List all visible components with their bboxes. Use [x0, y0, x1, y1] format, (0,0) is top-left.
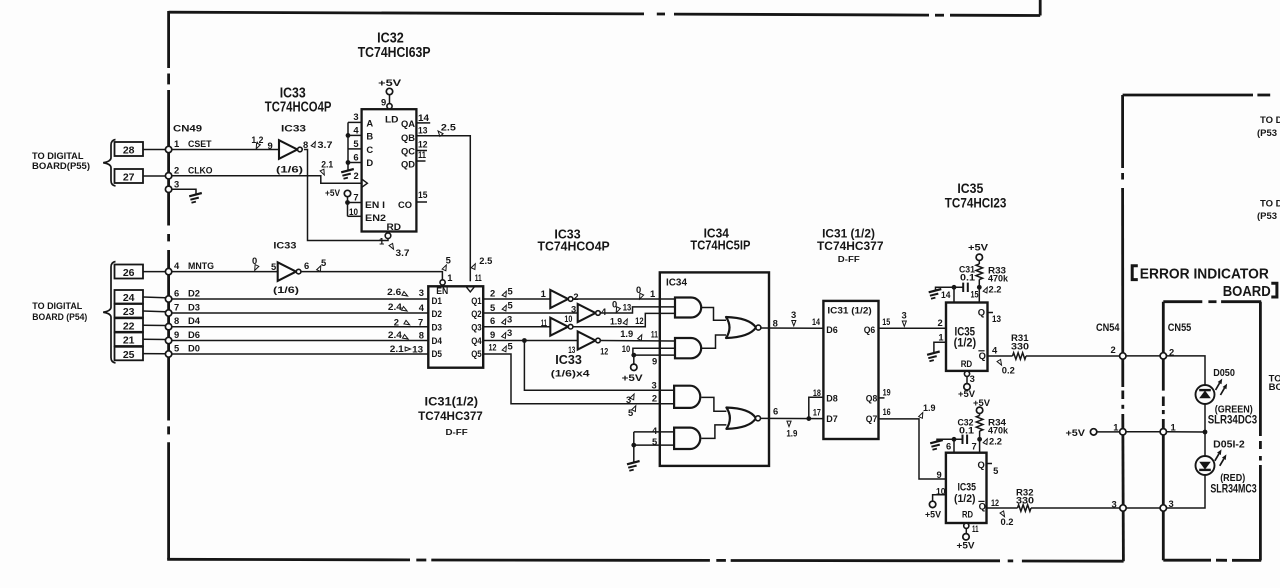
inverter IC33 11-10 — [550, 318, 568, 336]
error indicator board border top edge — [1163, 300, 1202, 303]
svg-text:LD: LD — [385, 114, 399, 125]
svg-text:470k: 470k — [988, 273, 1009, 284]
connector pin 8 D4 — [165, 324, 171, 330]
label ERROR INDICATOR BOARD — [1132, 266, 1138, 280]
svg-text:(1/6): (1/6) — [276, 165, 303, 176]
stub EN1 pin7 — [348, 202, 362, 204]
junction dot pin15 — [977, 285, 982, 290]
svg-text:D4: D4 — [188, 315, 201, 326]
svg-text:3.7: 3.7 — [318, 139, 333, 150]
svg-text:5: 5 — [508, 286, 513, 297]
svg-text:13: 13 — [412, 344, 423, 355]
svg-text:Q4: Q4 — [471, 335, 482, 346]
svg-text:9: 9 — [937, 469, 942, 480]
svg-text:B: B — [366, 131, 373, 142]
svg-text:26: 26 — [123, 267, 135, 279]
svg-text:IC35: IC35 — [958, 482, 977, 494]
wire R32 to CN54 pin3 — [1031, 507, 1120, 509]
NOR1 bubble — [756, 325, 761, 330]
svg-text:3: 3 — [652, 380, 657, 391]
wire box24 to pin6 — [143, 296, 165, 299]
junction dot between LEDs — [1203, 430, 1208, 435]
wire pin11 to +5V — [965, 528, 967, 533]
svg-text:Q: Q — [979, 350, 986, 361]
svg-text:4: 4 — [992, 345, 998, 356]
LED D050 green — [1196, 385, 1215, 404]
ground at IC35-1 pin14 — [929, 289, 942, 299]
svg-text:3: 3 — [353, 111, 358, 122]
wire D2 to IC31 D1 pin3 — [172, 298, 429, 300]
wire R31 to CN54 pin2 — [1026, 355, 1120, 357]
wire pin10 jog — [633, 348, 675, 355]
svg-text:1: 1 — [1113, 422, 1118, 433]
connector box 23 — [115, 304, 144, 318]
svg-text:5: 5 — [174, 343, 179, 354]
svg-text:TC74HC5IP: TC74HC5IP — [690, 238, 750, 253]
connector pin 3 — [165, 186, 171, 192]
svg-text:SLR34MC3: SLR34MC3 — [1210, 484, 1256, 496]
svg-text:2.5: 2.5 — [479, 255, 492, 266]
svg-text:1: 1 — [379, 236, 384, 247]
AND gate 2 of IC34 — [675, 338, 701, 358]
svg-text:TC74HC377: TC74HC377 — [418, 409, 483, 423]
svg-text:8: 8 — [773, 317, 778, 328]
svg-text:11: 11 — [541, 317, 547, 328]
wire QB pin13 to IC31 clock pin11 — [416, 136, 470, 282]
wire pin6 — [953, 439, 955, 452]
connector pin 4 MNTG — [165, 268, 171, 274]
svg-text:0.1: 0.1 — [959, 425, 974, 436]
svg-text:EN I: EN I — [365, 199, 385, 210]
wire inv11-10 out to IC34 pin12 — [573, 313, 675, 326]
main board border top-right horizontal at y=95 — [1123, 94, 1253, 97]
svg-text:EN2: EN2 — [365, 212, 386, 223]
svg-text:2.4: 2.4 — [388, 301, 403, 312]
wire D0 to IC31 D5 pin13 — [172, 353, 429, 355]
NOR gate 1 of IC34 — [726, 317, 756, 338]
svg-text:Q2: Q2 — [471, 308, 482, 319]
+5V terminal at pin10 — [929, 501, 935, 507]
wire AND1 out to NOR1 — [702, 308, 727, 321]
svg-text:10: 10 — [564, 313, 572, 324]
svg-text:17: 17 — [813, 406, 821, 417]
svg-text:D2: D2 — [432, 308, 443, 319]
wire junction to LED D051-2 — [1204, 432, 1206, 456]
svg-text:12: 12 — [418, 138, 428, 149]
connector box 25 — [115, 347, 144, 361]
svg-text:10: 10 — [349, 206, 358, 217]
wire CN55 pin1 to LED junction — [1167, 431, 1206, 433]
RD pin1 bubble — [385, 233, 391, 239]
svg-text:QD: QD — [401, 158, 415, 169]
EN bubble pin1 on IC31 top — [440, 280, 445, 285]
svg-text:13: 13 — [418, 124, 427, 135]
svg-text:Q: Q — [978, 459, 985, 470]
junction dot C31 left — [952, 285, 957, 290]
wire CN54 pin2 to CN55 pin2 — [1126, 355, 1160, 357]
stub Q8 pin19 — [879, 397, 885, 399]
CN55 pin 1 — [1160, 429, 1166, 435]
svg-text:D2: D2 — [188, 288, 200, 299]
svg-text:+5V: +5V — [968, 242, 989, 253]
ground at IC35-1 pin1 — [927, 352, 940, 362]
wire Q6 pin15 to IC35 pin2 — [879, 327, 947, 329]
svg-text:0.2: 0.2 — [1002, 365, 1015, 376]
annotation 2.5 at IC31 clock — [471, 263, 477, 270]
svg-text:D7: D7 — [826, 413, 838, 424]
svg-text:7: 7 — [353, 192, 358, 203]
stub Q pin13 — [988, 312, 994, 314]
annotation 5 on Q1 — [502, 290, 508, 297]
svg-text:(RED): (RED) — [1220, 473, 1245, 484]
svg-text:1.9: 1.9 — [786, 428, 797, 439]
svg-text:3.7: 3.7 — [396, 247, 410, 258]
main board border top edge (dash-dot) — [169, 12, 644, 14]
annotation 2.2 at pin15 — [983, 286, 989, 293]
AND gate 4 of IC34 — [674, 428, 700, 449]
wire C31 left to ground — [936, 287, 964, 290]
svg-text:0.2: 0.2 — [1001, 516, 1014, 527]
svg-text:9: 9 — [268, 140, 273, 151]
RD pin11 bubble — [964, 523, 969, 528]
IC35(1/2) one-shot box second — [946, 453, 987, 523]
wire C32 left to ground — [937, 439, 963, 441]
svg-text:11: 11 — [972, 523, 979, 534]
connector box 21 — [115, 333, 144, 347]
svg-text:C: C — [366, 144, 373, 155]
svg-text:4: 4 — [174, 260, 180, 271]
wire +5V up to pin9/pin10 — [633, 355, 635, 364]
ground for IC34 pins 4 5 — [627, 461, 640, 471]
svg-text:1: 1 — [1171, 422, 1176, 433]
svg-text:7: 7 — [972, 441, 977, 452]
svg-text:2.4: 2.4 — [388, 329, 403, 340]
main board border top-right jog up — [1039, 0, 1042, 16]
svg-text:10: 10 — [622, 343, 631, 354]
svg-text:1.9: 1.9 — [610, 315, 622, 326]
junction dot at D — [346, 160, 351, 165]
CN54 pin 2 — [1120, 353, 1126, 359]
junction dot pin9/10 — [631, 353, 636, 358]
svg-text:ERROR INDICATOR: ERROR INDICATOR — [1140, 267, 1269, 283]
svg-text:2: 2 — [1111, 344, 1116, 355]
svg-text:6: 6 — [353, 152, 358, 163]
svg-text:3: 3 — [970, 373, 975, 384]
svg-text:5: 5 — [993, 465, 998, 476]
CN55 pin 2 — [1160, 353, 1166, 359]
svg-text:Q3: Q3 — [471, 322, 482, 333]
annotation 3.7 at CSET inverter output — [311, 141, 317, 148]
svg-text:4: 4 — [419, 302, 425, 313]
main board border left edge (dash-dot) — [167, 11, 170, 68]
svg-text:IC31 (1/2): IC31 (1/2) — [827, 305, 871, 315]
connector pin 7 D3 — [165, 310, 171, 316]
RD pin3 bubble — [964, 371, 969, 376]
svg-text:3: 3 — [419, 287, 424, 298]
wire CSET to inverter IC33a — [172, 149, 279, 151]
svg-text:15: 15 — [971, 289, 979, 300]
svg-text:2: 2 — [573, 291, 578, 302]
svg-text:IC31(1/2): IC31(1/2) — [425, 394, 479, 408]
connector pin 2 CLKO — [165, 173, 171, 179]
svg-text:470k: 470k — [988, 425, 1009, 436]
inverter IC33a (CSET) — [279, 140, 297, 159]
svg-text:+5V: +5V — [622, 372, 644, 383]
annotation 3 on Q4 — [502, 332, 508, 339]
wire CN55 pin2 to LED D050 — [1167, 356, 1206, 385]
annotation 3.7 near RD pin — [389, 243, 395, 250]
wire box26 to pin4 — [143, 271, 165, 273]
wire NOR1 output pin8 to IC31 D6 pin14 — [761, 327, 824, 329]
wire Q4 to inverter 13-12 — [483, 340, 578, 342]
annotation 5 on Q2 — [502, 304, 508, 311]
brace for P54 group — [103, 262, 115, 364]
svg-text:D050: D050 — [1213, 368, 1235, 379]
inverter IC33 13-12 — [578, 332, 596, 350]
svg-text:5: 5 — [271, 261, 276, 272]
svg-text:D1: D1 — [432, 295, 443, 306]
stub EN2 pin10 — [348, 215, 362, 217]
brace for P55 group — [103, 140, 115, 187]
wire D6 to IC31 D4 pin8 — [172, 340, 429, 342]
annotation 5 on Q5 — [502, 345, 508, 352]
svg-text:IC33: IC33 — [281, 124, 306, 135]
CN55 pin 3 — [1160, 505, 1166, 511]
stub QC pin12 — [416, 150, 427, 152]
wire MNTG-inv to IC31 EN pin1 — [301, 272, 442, 280]
svg-text:9: 9 — [174, 329, 179, 340]
svg-text:9: 9 — [652, 356, 657, 367]
IC32 counter box TC74HC163P — [362, 109, 417, 231]
ground at CN49 pin3 — [189, 193, 202, 203]
svg-text:3: 3 — [1112, 499, 1117, 510]
svg-text:330: 330 — [1011, 341, 1029, 352]
+5V terminal at pin11 — [963, 534, 969, 540]
wire NOR2 output pin6 to IC31 D7 pin17 — [761, 417, 824, 419]
wire LED D050 to junction — [1204, 404, 1206, 432]
svg-text:Q8: Q8 — [866, 392, 878, 403]
annotation 1.9 on pin6 wire — [787, 421, 791, 426]
wire AND3 out to NOR2 — [701, 397, 726, 411]
error indicator board border right edge — [1259, 302, 1262, 436]
inverter IC33b (MNTG) — [278, 262, 296, 281]
svg-text:+5V: +5V — [973, 397, 991, 408]
svg-text:5: 5 — [508, 341, 513, 352]
junction dot D7/D8 tie — [806, 416, 811, 421]
svg-text:Q: Q — [979, 501, 986, 512]
wire pin7 — [979, 439, 981, 452]
svg-text:D6: D6 — [188, 329, 200, 340]
NOR gate 2 of IC34 — [726, 408, 756, 429]
ground at IC35-2 pin6 — [930, 440, 943, 450]
svg-text:4: 4 — [601, 306, 607, 317]
svg-text:18: 18 — [813, 387, 821, 398]
wire Q2 to inverter 3-4 — [483, 312, 578, 314]
svg-text:7: 7 — [174, 302, 179, 313]
connector box 27 — [115, 169, 144, 183]
svg-text:4: 4 — [652, 425, 658, 436]
svg-text:(1/6)x4: (1/6)x4 — [551, 369, 591, 380]
svg-text:D3: D3 — [188, 302, 200, 313]
svg-text:D-FF: D-FF — [446, 428, 468, 437]
svg-text:2: 2 — [938, 317, 943, 328]
wire pin1 to ground — [934, 342, 946, 352]
svg-text:TC74HCO4P: TC74HCO4P — [538, 239, 611, 254]
wire box22 to pin8 — [143, 324, 165, 326]
svg-text:12: 12 — [489, 341, 497, 352]
svg-text:IC33: IC33 — [273, 241, 296, 252]
svg-text:3: 3 — [791, 309, 796, 320]
svg-text:28: 28 — [123, 145, 135, 157]
connector pin 9 D6 — [165, 337, 171, 343]
connector box 28 — [115, 142, 144, 156]
svg-text:19: 19 — [883, 387, 891, 398]
stub D pin6 — [348, 162, 362, 164]
svg-text:13: 13 — [568, 344, 575, 355]
wire CLKO to IC32 clock pin2 — [172, 176, 362, 183]
resistor R34 470k — [979, 414, 981, 416]
svg-text:QA: QA — [401, 118, 415, 129]
svg-text:1.9: 1.9 — [923, 402, 936, 413]
wire Q1bar pin4 to R31 — [988, 355, 1013, 357]
svg-text:4: 4 — [353, 124, 359, 135]
svg-text:6: 6 — [773, 406, 778, 417]
svg-text:MNTG: MNTG — [188, 260, 214, 271]
connector pin 1 CSET — [165, 146, 171, 152]
svg-text:D-FF: D-FF — [838, 255, 860, 264]
svg-text:(1/6): (1/6) — [273, 285, 299, 296]
wire D3 to IC31 D2 pin4 — [172, 312, 429, 314]
svg-text:D4: D4 — [432, 335, 443, 346]
svg-text:5: 5 — [508, 300, 513, 311]
svg-text:2: 2 — [174, 165, 179, 176]
svg-text:QC: QC — [401, 145, 415, 156]
wire +5V to CN54 pin1 — [1097, 431, 1120, 433]
svg-text:3: 3 — [507, 313, 512, 324]
svg-text:BOARD(P55): BOARD(P55) — [32, 160, 90, 171]
clock wedge IC31 pin11 — [466, 286, 475, 292]
AND gate 1 of IC34 — [675, 298, 701, 318]
svg-text:+5V: +5V — [325, 187, 341, 198]
junction dot EN1 — [345, 200, 350, 205]
svg-text:13: 13 — [623, 302, 632, 313]
clock wedge IC32 pin2 — [362, 179, 368, 187]
wire box23 to pin7 — [143, 310, 165, 313]
wire Q7 pin16 to IC35-2 pin9 — [879, 419, 946, 479]
connector box 22 — [115, 318, 144, 332]
svg-text:8: 8 — [303, 139, 308, 150]
svg-text:8: 8 — [419, 330, 424, 341]
svg-text:1: 1 — [541, 288, 546, 299]
svg-text:1: 1 — [938, 332, 943, 343]
IC31(1/2) D-FF box first half — [428, 286, 483, 367]
wire +5V to LD pin9 — [389, 95, 391, 107]
svg-text:5: 5 — [353, 138, 358, 149]
svg-text:5: 5 — [652, 436, 657, 447]
IC34 box TC74HC51P — [660, 272, 769, 466]
svg-text:+5V: +5V — [1066, 427, 1086, 438]
svg-text:5: 5 — [321, 257, 326, 268]
svg-text:2.5: 2.5 — [441, 122, 456, 133]
wire D8 tie from D7 — [809, 397, 824, 418]
svg-text:2.2: 2.2 — [989, 436, 1002, 447]
svg-text:RD: RD — [387, 221, 402, 232]
wire CN55 pin3 to LED D051-2 — [1167, 475, 1206, 508]
wire pin10 to +5V — [933, 495, 946, 502]
main board border right edge / CN54 line (dash-dot) — [1121, 95, 1124, 168]
svg-text:14: 14 — [941, 289, 951, 300]
wire box28 to pin1 — [143, 149, 165, 151]
svg-text:Q5: Q5 — [471, 348, 482, 359]
wire D4 to IC31 D3 pin7 — [172, 326, 429, 328]
svg-text:Q6: Q6 — [864, 324, 876, 335]
svg-text:9: 9 — [381, 97, 386, 108]
svg-text:D0: D0 — [188, 343, 200, 354]
wire Q5 to IC34 pin2 — [483, 354, 674, 404]
wire AND4 out to NOR2 — [701, 425, 726, 439]
inverter IC33 3-4 — [578, 304, 596, 322]
svg-text:RD: RD — [961, 358, 973, 369]
wire MNTG to inverter IC33b — [172, 271, 278, 273]
IC35(1/2) one-shot box first — [946, 303, 988, 371]
junction dot at B — [346, 133, 351, 138]
junction dot pin7 — [977, 437, 982, 442]
IC32 input bus A B C D tie-down — [347, 122, 349, 170]
svg-text:D6: D6 — [826, 324, 838, 335]
wire pin3 to ground — [172, 189, 196, 194]
wire inv1-2 out to IC34 pin1 — [573, 298, 675, 300]
emission arrows D051-2 — [1215, 454, 1219, 461]
svg-text:6: 6 — [304, 260, 309, 271]
svg-text:22: 22 — [123, 320, 135, 332]
error indicator board border bottom edge — [1163, 559, 1211, 562]
stub A pin3 — [348, 121, 362, 123]
wire CN54 pin3 to CN55 pin3 — [1126, 507, 1160, 509]
svg-text:IC35: IC35 — [957, 181, 983, 196]
wire pin3 to +5V — [966, 376, 968, 383]
svg-text:+5V: +5V — [925, 509, 942, 520]
svg-text:Q: Q — [978, 307, 985, 318]
svg-text:11: 11 — [651, 329, 658, 340]
annotation 0.2 at pin4 — [997, 359, 1003, 366]
stub QA pin14 — [416, 122, 430, 124]
LED D051-2 red — [1196, 456, 1215, 475]
svg-text:CSET: CSET — [188, 138, 212, 149]
svg-text:BOARD (P54): BOARD (P54) — [32, 311, 87, 322]
wire CN54 pin1 to CN55 pin1 — [1126, 431, 1160, 433]
wire pin15 — [978, 287, 980, 302]
svg-text:CO: CO — [398, 199, 412, 210]
connector pin 6 D2 — [165, 296, 171, 302]
wire box27 to pin2 — [143, 175, 165, 177]
svg-text:6: 6 — [946, 441, 951, 452]
svg-text:27: 27 — [123, 172, 135, 184]
svg-text:11: 11 — [418, 149, 426, 160]
wire inv3-4 out to IC34 pin13 — [600, 307, 675, 313]
svg-text:1: 1 — [447, 272, 452, 283]
svg-text:CLKO: CLKO — [188, 165, 213, 176]
svg-text:SLR34DC3: SLR34DC3 — [1208, 414, 1258, 426]
svg-text:12: 12 — [991, 497, 999, 508]
svg-text:(P53: (P53 — [1257, 128, 1277, 139]
svg-text:11: 11 — [475, 272, 482, 283]
svg-text:D8: D8 — [826, 392, 838, 403]
connector box 26 — [115, 265, 144, 279]
wire Q2bar pin12 to R32 — [986, 507, 1018, 509]
stub Q pin5 — [987, 463, 993, 465]
svg-text:Q1: Q1 — [471, 295, 482, 306]
svg-text:TO D: TO D — [1260, 115, 1280, 126]
